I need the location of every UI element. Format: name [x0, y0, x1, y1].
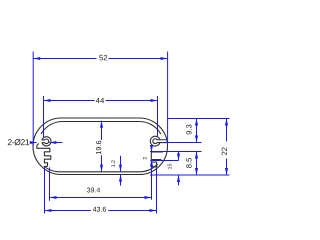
right top reference extension line	[167, 118, 230, 120]
dim 43.6 left extension	[44, 167, 46, 213]
text 2 rotated	[143, 157, 147, 159]
arrow 39.4 left	[50, 196, 57, 199]
dim 19.6 line lower part	[101, 155, 103, 171]
right bottom reference extension line	[150, 174, 230, 176]
arrow leader left at boss	[49, 141, 56, 144]
arrow 43.6 right	[150, 209, 157, 212]
arrow leader right at wall	[30, 141, 37, 144]
arrow 52 right	[161, 57, 168, 60]
arrow 22 bottom	[225, 168, 228, 175]
text 8.5 rotated	[186, 158, 191, 168]
outer stadium contour	[33, 118, 168, 175]
arrow 19.6 bottom	[100, 165, 103, 172]
dim 52 line left part	[33, 58, 96, 60]
dim 44 line right part	[106, 100, 158, 102]
right screw boss C-ring	[150, 136, 160, 146]
dim 22 line lower part	[226, 159, 228, 176]
dim 44 extension line right	[157, 96, 159, 137]
arrow 9.3 top	[195, 119, 198, 126]
dim 39.4 left extension	[49, 167, 51, 200]
text 22 rotated	[222, 147, 227, 155]
arrow 44 right	[151, 99, 158, 102]
leader 2-phi21 right arrow tail	[49, 142, 62, 144]
arrow 19.6 top	[100, 121, 103, 128]
arrow 44 left	[44, 99, 51, 102]
dim 2 lower tail right	[151, 160, 153, 200]
dim 52 line right part	[109, 58, 168, 60]
right slot box	[151, 152, 162, 160]
dim 1.2 upper tail	[120, 156, 122, 172]
left comb slots	[37, 144, 51, 167]
dim 22 line upper part	[226, 119, 228, 142]
arrow 1.2 up	[119, 175, 122, 182]
inner cavity top wall line	[41, 122, 160, 134]
inner cavity bottom wall line	[44, 164, 157, 172]
text 52	[99, 55, 107, 61]
right boss slit edges to wall	[157, 140, 166, 143]
right slot-top extension line	[150, 151, 202, 153]
dim 8.5 line	[196, 152, 198, 176]
left screw boss C-ring	[42, 137, 51, 146]
arrow 22 top	[225, 119, 228, 126]
dim 15 lower tail	[178, 175, 180, 185]
arrow 8.5 top	[195, 152, 198, 159]
dim 43.6 line left part	[45, 210, 91, 212]
dim 52 extension line right	[167, 52, 169, 144]
text 43.6	[93, 207, 106, 212]
text 19.6 rotated	[96, 141, 101, 155]
leader 2-phi21 line	[32, 142, 36, 144]
text 2-phi21 leader	[8, 139, 29, 145]
text 1.2 rotated	[111, 160, 115, 167]
dim 2 upper tail right	[151, 146, 153, 152]
arrow dim2 up	[150, 160, 153, 167]
arrow 15 up	[177, 175, 180, 182]
dim 9.3 line	[196, 119, 198, 143]
arrow 9.3 bottom	[195, 136, 198, 143]
text 39.4	[87, 188, 100, 193]
dim 1.2 lower tail	[120, 175, 122, 186]
text 15 rotated	[168, 164, 172, 169]
arrow 1.2 down	[119, 165, 122, 172]
dim 19.6 line upper part	[101, 121, 103, 140]
right slot-bottom extension line	[150, 160, 178, 162]
dim 39.4 line	[50, 197, 152, 199]
arrow 43.6 left	[45, 209, 52, 212]
arrow 15 down	[177, 154, 180, 161]
arrow 39.4 right	[145, 196, 152, 199]
dim 43.6 right extension	[156, 167, 158, 213]
right boss-center extension line	[163, 142, 202, 144]
dim 43.6 line right part	[108, 210, 156, 212]
right lower step	[152, 162, 157, 167]
arrow 8.5 bottom	[195, 168, 198, 175]
arrow dim2 down	[150, 145, 153, 152]
dim 52 extension line left	[32, 52, 34, 147]
dim 44 extension line left	[43, 96, 45, 138]
dim 44 line left part	[44, 100, 95, 102]
dim 15 upper tail	[178, 152, 180, 161]
text 44	[96, 98, 104, 103]
text 9.3 rotated	[186, 125, 191, 135]
arrow 52 left	[33, 57, 40, 60]
